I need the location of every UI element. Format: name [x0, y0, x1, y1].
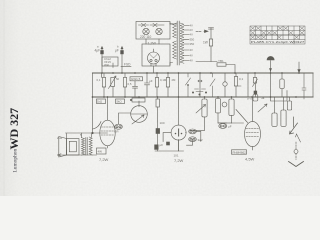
arrow tip F2: [121, 47, 123, 49]
switch S2: [210, 73, 215, 97]
svg-text:GW1,5: GW1,5: [131, 77, 141, 81]
svg-text:YB1: YB1: [218, 59, 224, 63]
label 4uF2: [115, 49, 119, 53]
svg-text:4V: 4V: [190, 24, 194, 28]
band labels: [97, 77, 177, 86]
svg-text:2V: 2V: [190, 28, 194, 32]
svg-text:1kΩ: 1kΩ: [97, 100, 102, 104]
resistor R5: [166, 78, 169, 88]
label 101: [174, 154, 179, 158]
wire loop band switch: [271, 73, 288, 101]
arrow tip F1: [101, 47, 103, 49]
svg-text:Lumophon: Lumophon: [13, 149, 19, 173]
cathode label box V1: [97, 148, 107, 154]
variable arrow L4: [196, 105, 206, 114]
osc coil small: [254, 91, 256, 95]
label box GW1,5: [130, 77, 143, 81]
label T7: [99, 157, 109, 162]
svg-text:4V: 4V: [190, 33, 194, 37]
arrow left end: [58, 154, 62, 156]
voltage selector lamp L1: [143, 28, 149, 34]
detector diode GR1: [115, 124, 123, 129]
svg-text:4V: 4V: [190, 59, 194, 63]
secondary tap leads: [184, 26, 189, 61]
label box above IF: [132, 98, 145, 102]
title text WD 327: [7, 108, 21, 150]
cathode blob V2: [167, 142, 170, 145]
grid label box stage1: [97, 99, 106, 104]
svg-text:WkL: WkL: [104, 63, 110, 67]
audio tube V2: [171, 125, 186, 140]
svg-text:101: 101: [174, 154, 179, 158]
resistor R1: [102, 78, 105, 88]
variable arrow IF: [132, 115, 144, 124]
resistor R_h: [209, 39, 212, 46]
table X marks row1: [251, 27, 304, 30]
label box 2: [116, 99, 125, 104]
svg-text:3a2: 3a2: [198, 138, 203, 142]
electrolytic C7: [155, 145, 159, 150]
resistor R3: [123, 78, 126, 88]
speaker magnet outer: [67, 139, 80, 155]
label 1W: [203, 41, 208, 45]
junction speaker line: [91, 96, 108, 134]
potentiometer R2: [111, 78, 115, 87]
svg-text:0,5: 0,5: [128, 82, 132, 86]
screen resistor R8: [156, 99, 159, 107]
svg-text:PLA85·CY1·2x4μF·WD327: PLA85·CY1·2x4μF·WD327: [251, 40, 305, 44]
transformer primary top lead: [170, 23, 173, 65]
svg-text:PHM4662: PHM4662: [233, 150, 247, 154]
voltage selector lamp L2: [156, 28, 162, 34]
diode GR2a: [189, 129, 197, 134]
svg-text:4V: 4V: [190, 54, 194, 58]
wire YB1 to bus: [226, 65, 235, 74]
electrolytic C6: [156, 129, 160, 134]
capacitor C3: [133, 81, 138, 97]
stage link wire: [190, 123, 244, 130]
RF tube V3: [245, 121, 261, 146]
label box ChL2/VFL5/WkL: [102, 57, 118, 66]
label 4uF: [95, 45, 120, 53]
rectifier tube V4: [148, 52, 160, 64]
label FSD: [124, 63, 131, 67]
speaker wires vertical: [67, 133, 92, 155]
svg-text:100: 100: [160, 121, 165, 125]
power transformer Tr core: [177, 21, 179, 65]
trimmer T2: [222, 102, 227, 107]
svg-text:220 110: 220 110: [140, 35, 152, 39]
antenna coil L3: [281, 73, 283, 79]
svg-text:4μF: 4μF: [95, 49, 101, 53]
tuning coil L5: [217, 97, 219, 99]
svg-text:7,2W: 7,2W: [174, 158, 184, 163]
table bottom text row: [251, 40, 305, 44]
svg-text:2M: 2M: [172, 78, 177, 82]
capacitor C5 right: [302, 73, 306, 99]
label 1,2W: [148, 42, 157, 46]
coupling coil wave: [198, 73, 202, 97]
mains plug dome: [267, 56, 274, 60]
antenna coil A2: [283, 97, 285, 110]
tuning coil L4: [204, 97, 206, 99]
grid wire V3: [236, 110, 248, 123]
label 100ohm: [160, 121, 165, 125]
table X marks row2: [251, 31, 304, 34]
voltage table frame: [250, 26, 305, 44]
labels near speaker: [57, 133, 82, 140]
resistor R4: [155, 78, 158, 88]
wire R1 down: [102, 63, 114, 97]
wire box A to transformer: [170, 23, 177, 25]
output tube V1: [100, 120, 115, 146]
svg-text:3a: 3a: [261, 96, 265, 100]
heater bus line: [196, 61, 217, 63]
label 7,2W: [174, 158, 184, 163]
resistor R7 small: [253, 78, 256, 84]
mains box A outline: [136, 22, 170, 40]
insulator circle: [294, 150, 298, 154]
label 4,5W: [245, 157, 255, 162]
svg-text:7,2W: 7,2W: [99, 157, 109, 162]
svg-text:4,5W: 4,5W: [245, 157, 255, 162]
heater line vertical: [210, 28, 212, 39]
IF can circle: [131, 106, 148, 123]
node FSD wire: [121, 65, 131, 67]
resistor R6: [234, 77, 237, 87]
osc variable arrow: [258, 104, 267, 112]
svg-text:350: 350: [190, 42, 195, 46]
svg-text:μF: μF: [149, 79, 153, 83]
svg-text:WD 327: WD 327: [7, 108, 21, 150]
left spine wire: [92, 73, 94, 133]
svg-text:350: 350: [190, 37, 195, 41]
wire v248: [247, 73, 249, 97]
svg-text:μF: μF: [160, 143, 164, 147]
electrolytic capacitor C1: [101, 51, 104, 54]
trimmer circle T1: [223, 82, 227, 86]
tuning coil L6: [231, 97, 233, 99]
fuse Si1: [139, 24, 149, 27]
svg-text:4W: 4W: [98, 150, 103, 154]
transformer secondary winding: [180, 23, 184, 63]
switch S1: [186, 73, 191, 97]
label box PHM4662: [232, 150, 247, 154]
antenna coil A1: [274, 97, 276, 113]
bus 1 (HT rail): [93, 72, 314, 74]
wire box A down to box B: [146, 39, 159, 44]
junction dots bus1: [101, 72, 300, 74]
capacitor C4: [145, 73, 150, 97]
band switch arm: [290, 117, 298, 134]
svg-text:μF: μF: [228, 125, 232, 129]
svg-text:2kΩ: 2kΩ: [57, 136, 62, 140]
small coil A3: [289, 97, 291, 101]
svg-text:1W: 1W: [203, 41, 208, 45]
antenna lead arrow: [298, 62, 300, 71]
stage2 bottom wire: [0, 140, 184, 152]
svg-text:5kΩ: 5kΩ: [117, 100, 122, 104]
bus 2 (chassis rail): [93, 96, 314, 98]
output transformer windings: [82, 138, 85, 156]
heater line to bus: [210, 46, 212, 62]
wire grid hop arc: [93, 122, 102, 130]
svg-text:FSD: FSD: [124, 63, 131, 67]
svg-text:1,2W: 1,2W: [148, 42, 157, 46]
wire anode V2: [178, 73, 180, 97]
coupling caps row: [195, 89, 206, 92]
title text Lumophon: [13, 149, 19, 173]
speaker cone: [59, 137, 67, 158]
transformer primary winding: [173, 23, 177, 59]
capacitor C_h plates: [209, 28, 214, 30]
diode GR2b: [189, 137, 197, 142]
svg-text:μF: μF: [115, 49, 119, 53]
heater tap arrow: [196, 30, 207, 32]
grid wire V2: [163, 133, 171, 142]
speaker top wire: [66, 132, 108, 134]
table X marks row3: [251, 36, 299, 39]
choke YB1 box: [217, 63, 226, 66]
rectifier box B outline: [142, 44, 170, 66]
svg-text:4V: 4V: [190, 48, 194, 52]
speaker bottom wire: [58, 154, 97, 156]
label 220V: [140, 35, 152, 39]
svg-text:0,1M: 0,1M: [160, 78, 167, 82]
speaker magnet inner: [69, 141, 76, 152]
junction dots bus2: [103, 96, 297, 98]
junction blob S3: [254, 91, 257, 94]
earth lead dashed: [295, 142, 297, 149]
svg-text:0,1: 0,1: [97, 78, 101, 82]
filter cap line F1: [101, 47, 103, 73]
field coil zigzag: [89, 137, 92, 155]
capacitor oval C8: [219, 124, 227, 129]
fuse Si2: [150, 24, 164, 27]
svg-text:50: 50: [116, 77, 120, 81]
filter cap line F2: [121, 47, 123, 73]
right edge vertical: [312, 73, 314, 97]
electrolytic capacitor C2: [121, 51, 124, 54]
svg-text:0,1: 0,1: [239, 77, 244, 81]
tap labels: [190, 24, 195, 63]
switch S3: [253, 73, 258, 87]
earth symbol: [289, 162, 304, 167]
